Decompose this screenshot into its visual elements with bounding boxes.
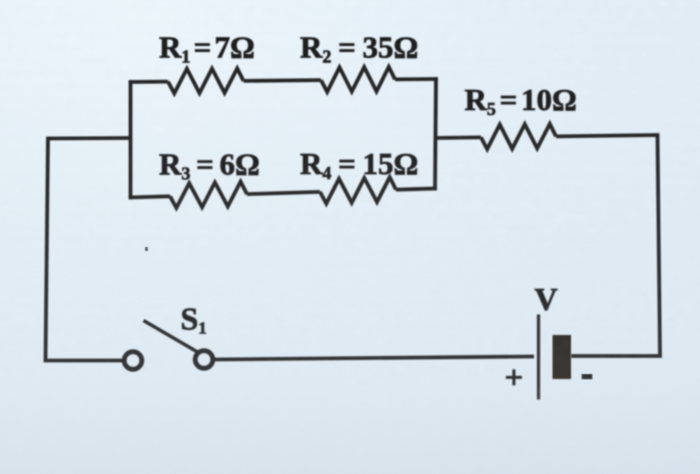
wire: bottom branch right segment — [396, 188, 437, 189]
resistor R4 (15 ohm) zigzag — [320, 177, 396, 203]
value label R2 = 35 ohm — [300, 30, 418, 67]
wire: bottom branch left segment — [129, 196, 170, 197]
wire: switch S1 to battery positive terminal — [215, 357, 535, 360]
wire: bottom branch middle segment (R3 to R4) — [247, 192, 320, 194]
wire: left vertical branch down to switch — [46, 137, 123, 361]
label - (battery negative sign) — [582, 374, 593, 379]
resistor R3 (6 ohm) zigzag — [170, 182, 247, 208]
switch S1 right contact circle — [195, 351, 213, 369]
switch S1 lever arm (open) — [144, 321, 198, 353]
value label R1 = 7 ohm — [159, 30, 255, 67]
resistor R1 (7 ohm) zigzag — [168, 68, 244, 93]
value label R3 = 6 ohm — [159, 146, 260, 183]
battery V positive plate (long thin) — [537, 315, 540, 400]
wire: R5 to top-right corner and down to battery negative side — [556, 135, 660, 356]
resistor R5 (10 ohm) zigzag — [481, 124, 556, 149]
resistor R2 (35 ohm) zigzag — [321, 67, 395, 92]
label S1 (switch designator) — [181, 301, 207, 338]
wire: box left edge (node A junction) — [129, 80, 133, 199]
wire: top branch left segment — [129, 80, 168, 84]
wire: node B lead from box to resistor R5 — [436, 135, 482, 139]
value label R5 = 10 ohm — [465, 82, 577, 119]
switch S1 left contact circle — [124, 352, 142, 370]
ink speck artifact — [145, 247, 148, 251]
wire: node A horizontal lead into parallel box — [48, 136, 131, 140]
wire: box right edge (node B junction) — [435, 77, 436, 190]
battery V negative plate (short thick) — [553, 335, 572, 379]
wire: top branch right segment — [395, 77, 438, 81]
wire: top branch middle segment (R1 to R2) — [244, 78, 322, 83]
value label R4 = 15 ohm — [300, 146, 418, 183]
